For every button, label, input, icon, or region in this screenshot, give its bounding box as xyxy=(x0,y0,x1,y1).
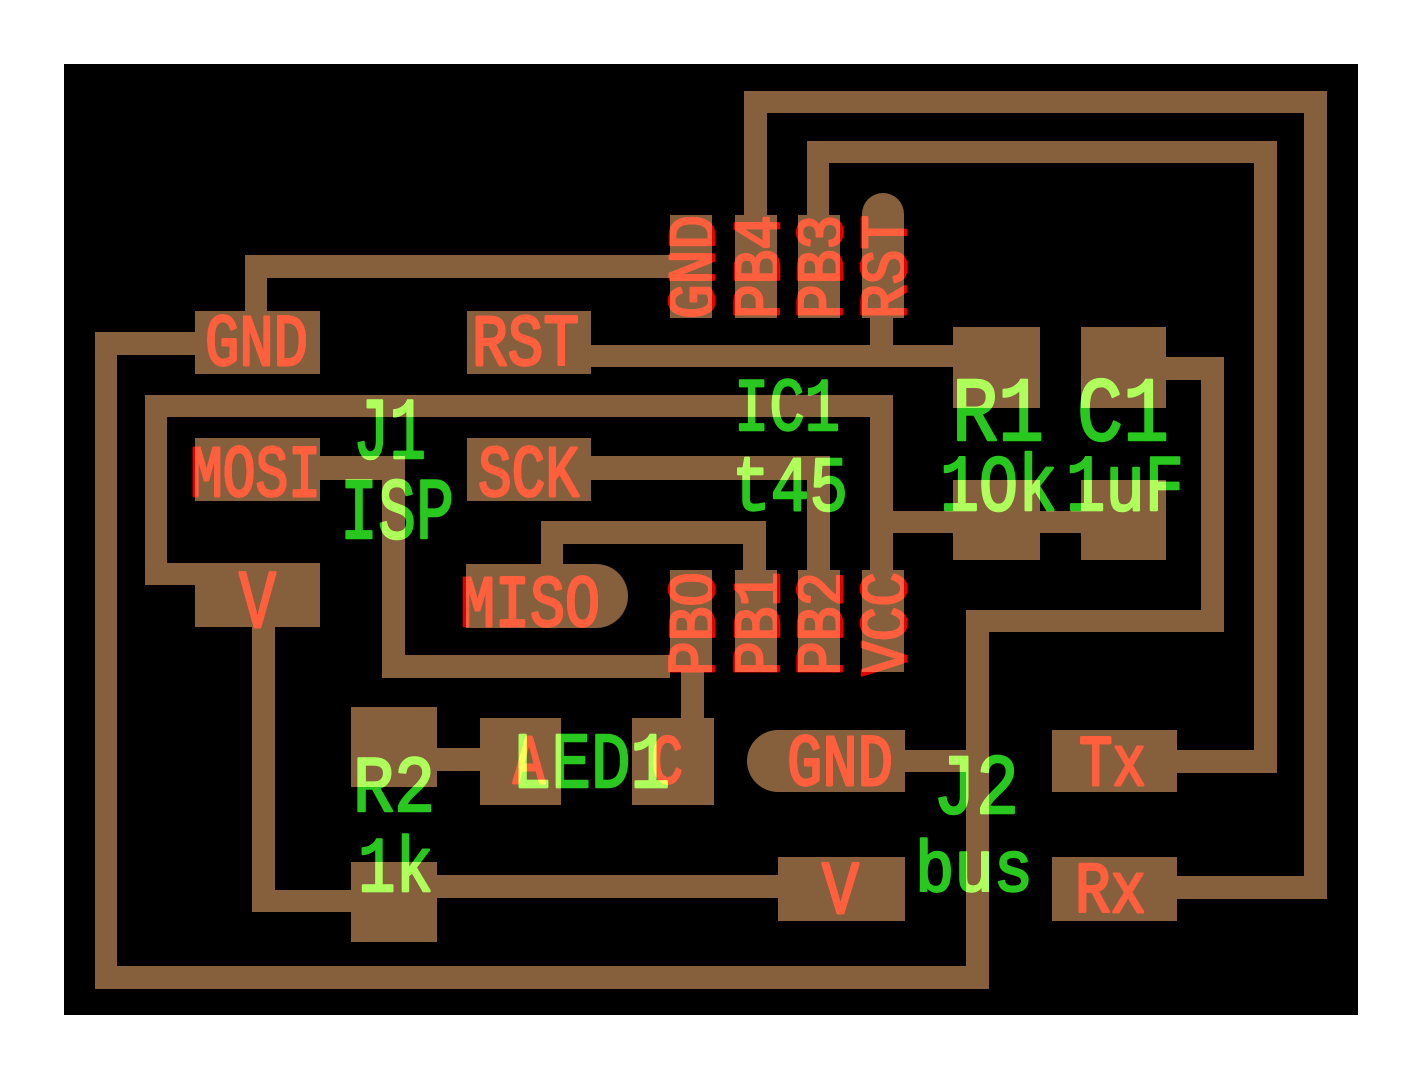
wire SCK pad right xyxy=(591,456,830,480)
svg-text:RST: RST xyxy=(851,215,927,319)
pad LED1 anode A xyxy=(480,718,561,805)
wire MOSI to PB0 xyxy=(382,655,670,678)
pad J1 SCK xyxy=(467,438,591,501)
svg-text:bus: bus xyxy=(915,831,1033,913)
pad IC1 pin2 PB3 xyxy=(798,215,840,318)
pad R1 bottom xyxy=(953,480,1040,560)
pad C1 bottom xyxy=(1081,480,1166,560)
wire GND vertical to bottom xyxy=(966,610,989,989)
wire J2 GND stub xyxy=(905,750,966,772)
svg-text:MOSI: MOSI xyxy=(190,435,321,518)
wire R2 bottom to J2 V xyxy=(437,875,778,898)
wire Rx to right vertical xyxy=(1177,876,1327,899)
pad R1 top xyxy=(953,327,1040,408)
wire SCK down to PB2 xyxy=(807,480,830,570)
svg-text:SCK: SCK xyxy=(478,435,579,518)
svg-text:R2: R2 xyxy=(353,745,435,836)
pad IC1 pin8 VCC xyxy=(862,570,904,672)
wire RST pad stub down xyxy=(870,318,893,345)
pad J1 RST xyxy=(467,311,591,374)
wire PB4 pad up xyxy=(744,113,767,215)
wire MISO down to PB1 xyxy=(743,544,766,570)
svg-text:LED1: LED1 xyxy=(512,721,670,811)
pad J2 GND (rounded left) xyxy=(747,730,905,792)
wire MOSI vertical xyxy=(382,456,405,655)
wire PB3 top horizontal xyxy=(807,141,1277,163)
pad IC1 pin5 PB0 xyxy=(670,570,712,672)
svg-text:V: V xyxy=(239,558,276,652)
wire MOSI pad right xyxy=(320,456,405,480)
svg-text:t45: t45 xyxy=(732,446,848,534)
wire PB4 top horizontal xyxy=(744,91,1327,113)
svg-text:J2: J2 xyxy=(933,742,1019,839)
wire PB3 pad up xyxy=(807,163,829,215)
wire GND bottom horizontal xyxy=(95,966,989,989)
svg-text:GND: GND xyxy=(205,304,308,387)
pad R2 bottom xyxy=(351,862,437,942)
svg-text:Rx: Rx xyxy=(1075,852,1146,934)
svg-text:V: V xyxy=(822,851,859,936)
pad R2 top xyxy=(351,707,437,787)
pad J2 V xyxy=(778,857,905,921)
wire VCC to R1 bottom xyxy=(893,511,953,533)
svg-text:1uF: 1uF xyxy=(1066,444,1184,535)
pad J2 Rx xyxy=(1052,857,1177,921)
wire IC GND to J1 GND vertical xyxy=(245,255,267,311)
svg-text:1Ok: 1Ok xyxy=(940,444,1057,535)
pad J1 GND xyxy=(195,311,320,374)
pad J1 MISO (rounded right) xyxy=(466,564,628,628)
wire R1-C1 bottom bridge xyxy=(1040,511,1081,533)
wire RST horizontal J1-R1 xyxy=(591,345,953,367)
svg-text:1k: 1k xyxy=(358,827,433,915)
svg-text:RST: RST xyxy=(472,304,579,387)
wire J1 V down vertical xyxy=(252,627,275,912)
pad IC1 pin1 RST (rounded top) xyxy=(862,193,904,318)
wire R2 top to LED anode xyxy=(437,748,480,771)
wire J1 V pad entry xyxy=(167,563,195,585)
wire GND left vertical xyxy=(95,332,117,989)
pad J2 Tx xyxy=(1052,730,1177,792)
wire V long horizontal xyxy=(145,395,893,417)
svg-text:MISO: MISO xyxy=(460,565,600,648)
wire PB3 right vertical xyxy=(1254,141,1277,773)
wire V down to VCC pad xyxy=(870,395,893,570)
wire C1 top to right xyxy=(1166,357,1224,380)
wire PB4 right vertical xyxy=(1304,91,1327,899)
svg-text:VCC: VCC xyxy=(851,572,927,676)
pad J1 V xyxy=(195,563,320,627)
wire GND right vertical upper xyxy=(1201,357,1224,632)
wire PB0 to LED cathode xyxy=(681,672,704,718)
svg-text:Tx: Tx xyxy=(1079,725,1146,807)
pad IC1 pin6 PB1 xyxy=(735,570,777,672)
pad LED1 cathode C xyxy=(632,718,714,805)
pad C1 top xyxy=(1081,327,1166,408)
wire GND middle horizontal xyxy=(966,610,1224,632)
pad IC1 pin3 PB4 xyxy=(735,215,777,318)
svg-text:GND: GND xyxy=(787,724,893,807)
wire IC GND to J1 GND horizontal xyxy=(267,255,670,278)
wire MISO pad stub up xyxy=(541,544,563,566)
wire Tx to vertical xyxy=(1177,750,1277,773)
pad J1 MOSI xyxy=(195,438,320,501)
wire J1 GND left horizontal xyxy=(95,332,195,355)
svg-text:IC1: IC1 xyxy=(734,368,840,453)
svg-text:ISP: ISP xyxy=(340,467,454,565)
wire V left vertical xyxy=(145,395,167,585)
wire to R2 bottom xyxy=(252,890,351,912)
pad IC1 pin4 GND xyxy=(670,215,712,318)
wire MISO horizontal xyxy=(541,521,766,544)
pad IC1 pin7 PB2 xyxy=(798,570,840,672)
